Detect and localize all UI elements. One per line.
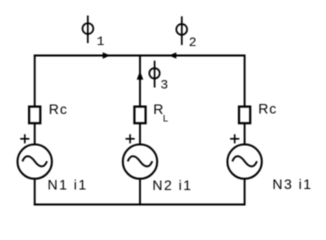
svg-text:3: 3: [160, 78, 168, 93]
resistor RL middle body: [134, 107, 145, 124]
arrow phi3 up: [137, 71, 144, 80]
wire left branch upper: [34, 55, 36, 107]
svg-text:2: 2: [189, 35, 197, 50]
flux phi2 symbol: [176, 16, 187, 45]
source N3 circle: [227, 144, 261, 178]
source N2 circle: [123, 144, 157, 178]
wire right branch upper: [244, 55, 246, 107]
flux phi1 symbol: [83, 16, 94, 44]
arrow phi2 left: [169, 52, 176, 58]
resistor Rc right body: [239, 107, 250, 124]
svg-text:L: L: [163, 114, 168, 125]
source N2 sine: [128, 156, 153, 166]
wire middle branch mid: [139, 123, 141, 145]
polarity plus N3: [230, 134, 239, 143]
svg-text:1: 1: [97, 34, 105, 49]
wire bottom bus: [34, 204, 246, 206]
wire middle branch lower: [139, 179, 141, 206]
polarity plus N2: [126, 134, 135, 143]
svg-text:N2 i1: N2 i1: [152, 177, 192, 193]
wire right branch mid: [244, 123, 246, 145]
svg-text:Rc: Rc: [258, 100, 277, 116]
wire left branch lower: [34, 179, 36, 206]
svg-text:Rc: Rc: [49, 101, 68, 117]
polarity plus N1: [20, 134, 29, 143]
resistor Rc left body: [29, 107, 40, 124]
arrow phi1 right: [103, 52, 111, 58]
source N3 sine: [232, 156, 257, 166]
source N1 sine: [22, 156, 47, 166]
svg-text:N3 i1: N3 i1: [272, 176, 312, 192]
wire right branch lower: [244, 179, 246, 206]
svg-text:R: R: [153, 101, 163, 117]
source N1 circle: [18, 144, 52, 178]
flux phi3 symbol: [149, 61, 159, 88]
wire top bus: [34, 55, 246, 57]
svg-text:N1 i1: N1 i1: [48, 177, 88, 193]
wire middle branch upper: [139, 56, 141, 106]
wire left branch mid: [34, 123, 36, 145]
